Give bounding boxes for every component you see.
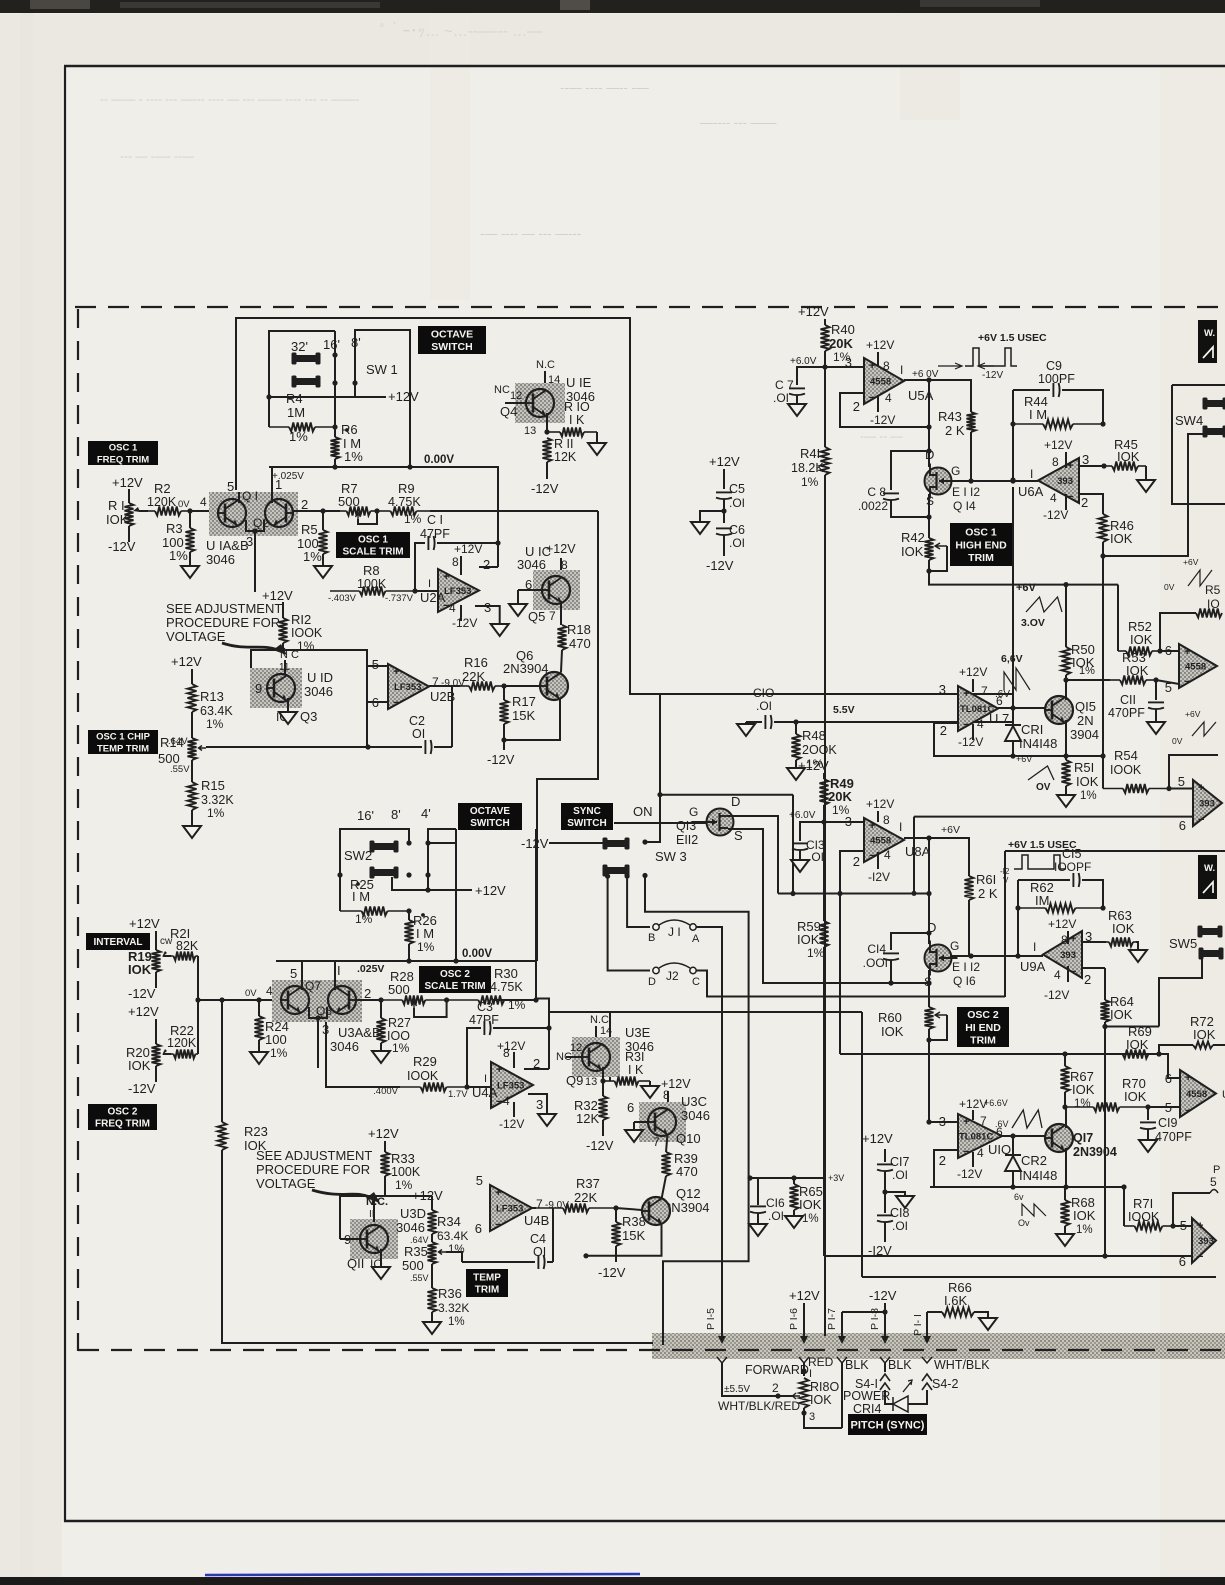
svg-text:500: 500 [388, 982, 410, 997]
svg-text:8: 8 [883, 359, 890, 373]
svg-text:+12V: +12V [129, 916, 160, 931]
wire emitters common [246, 520, 264, 531]
svg-text:R42: R42 [901, 530, 925, 545]
wire U4B output [532, 1207, 536, 1209]
svg-text:+12V: +12V [959, 665, 987, 679]
svg-text:4: 4 [503, 1094, 510, 1108]
svg-text:2: 2 [1084, 972, 1091, 987]
svg-text:OSC 1 CHIP: OSC 1 CHIP [96, 732, 151, 743]
svg-text:Ov: Ov [1018, 1218, 1030, 1228]
svg-text:BLK: BLK [888, 1358, 912, 1372]
svg-text:P I-5: P I-5 [705, 1308, 717, 1330]
svg-text:FREQ TRIM: FREQ TRIM [95, 1119, 150, 1130]
resistor R33 [384, 1141, 386, 1152]
svg-text:U 7: U 7 [989, 711, 1009, 726]
halftone connector band [652, 1333, 1225, 1359]
wire Q1 collector [238, 492, 240, 503]
svg-text:.OI: .OI [729, 496, 745, 510]
svg-text:500: 500 [338, 494, 360, 509]
wire Q16 gate row [950, 955, 1043, 957]
svg-text:1M: 1M [287, 405, 305, 420]
node R4-R6 junction [332, 424, 337, 429]
svg-text:8': 8' [351, 335, 361, 350]
svg-text:R37: R37 [576, 1176, 600, 1191]
svg-text:3.OV: 3.OV [1021, 617, 1045, 629]
svg-text:TRIM: TRIM [475, 1285, 499, 1296]
svg-text:QI3: QI3 [676, 819, 696, 833]
svg-text:R38: R38 [622, 1214, 646, 1229]
svg-text:IM: IM [1035, 893, 1049, 908]
svg-text:IOK: IOK [1076, 774, 1099, 789]
resistor R36 [431, 1264, 433, 1288]
svg-text:3: 3 [1082, 452, 1089, 467]
wire osc2 bottom rail [930, 1186, 1124, 1188]
resistor R34 [431, 1196, 433, 1210]
svg-text:1%: 1% [344, 449, 363, 464]
node SW1 16ft [332, 352, 337, 357]
svg-text:1%: 1% [801, 475, 819, 489]
svg-text:7: 7 [653, 1135, 660, 1149]
ground C5C6 [691, 522, 709, 534]
wire P1-5 to R180 wiper [722, 1363, 793, 1396]
svg-text:2: 2 [853, 854, 860, 869]
wire OSC1 block top rail [236, 318, 1013, 694]
svg-text:TRIM: TRIM [968, 552, 994, 564]
svg-text:-12V: -12V [982, 370, 1003, 381]
svg-text:+12V: +12V [412, 1188, 443, 1203]
svg-text:Q5: Q5 [528, 609, 545, 624]
svg-text:3: 3 [536, 1097, 543, 1112]
octave switch label box 2 [458, 803, 522, 830]
svg-text:N C: N C [280, 649, 299, 661]
svg-text:OSC 1: OSC 1 [109, 443, 138, 454]
svg-text:I: I [900, 363, 903, 377]
svg-text:+: + [869, 360, 875, 372]
svg-text:R3I: R3I [625, 1050, 644, 1064]
svg-text:SCALE TRIM: SCALE TRIM [342, 547, 403, 558]
svg-text:1%: 1% [303, 549, 322, 564]
svg-text:.OI: .OI [892, 1219, 908, 1233]
svg-text:U ID: U ID [307, 670, 333, 685]
wire C9 net vertical [1012, 390, 1014, 480]
svg-text:+6V: +6V [1016, 754, 1032, 764]
svg-text:NC: NC [494, 384, 510, 396]
svg-text:0V: 0V [1164, 582, 1175, 592]
svg-text:VOLTAGE: VOLTAGE [166, 629, 226, 644]
wire R64 junction down to 393b pin6 rail [1104, 1027, 1106, 1257]
svg-text:IOK: IOK [1073, 1208, 1096, 1223]
capacitor C3 junction [546, 1025, 551, 1030]
svg-text:CR2: CR2 [1021, 1153, 1047, 1168]
svg-text:J2: J2 [666, 969, 679, 983]
svg-text:--- — -—- --—: --- — -—- --— [120, 149, 194, 163]
svg-text:1%: 1% [206, 717, 224, 731]
ground R31 [641, 1086, 659, 1098]
page top edge strip [0, 0, 1225, 13]
svg-text:J I: J I [668, 925, 681, 939]
osc1 freq trim label box [88, 441, 158, 465]
wire out node down [928, 838, 930, 944]
svg-text:1%: 1% [207, 806, 225, 820]
svg-text:HIGH END: HIGH END [955, 539, 1007, 551]
svg-text:G: G [950, 939, 959, 953]
svg-text:2N3904: 2N3904 [503, 661, 549, 676]
ground C19 [1139, 1140, 1157, 1152]
svg-text:P I-8: P I-8 [869, 1308, 881, 1330]
svg-text:2: 2 [939, 1153, 946, 1168]
svg-text:+12V: +12V [368, 1126, 399, 1141]
op-amp 393b right [1192, 1218, 1216, 1263]
svg-text:5: 5 [1210, 1175, 1217, 1189]
svg-text:+6.0V: +6.0V [790, 356, 817, 367]
svg-text:C 8: C 8 [867, 485, 886, 499]
svg-text:CI6: CI6 [766, 1196, 785, 1210]
svg-text:+6V: +6V [1016, 582, 1037, 594]
svg-text:5: 5 [1178, 774, 1185, 789]
ground R36 [423, 1322, 441, 1334]
svg-text:OSC 2: OSC 2 [440, 969, 470, 980]
svg-text:SYNC: SYNC [573, 806, 601, 817]
svg-text:TEMP: TEMP [473, 1273, 501, 1284]
wire R30 output to pin2 net [535, 999, 549, 1070]
wire R50 junction row [1066, 679, 1110, 681]
svg-text:WHT/BLK: WHT/BLK [934, 1358, 990, 1372]
transistor Q15 2N3904 [1045, 696, 1073, 724]
svg-text:.OI: .OI [768, 1209, 784, 1223]
svg-text:2: 2 [1081, 495, 1088, 510]
svg-text:I K: I K [628, 1063, 644, 1077]
svg-text:CRI4: CRI4 [853, 1402, 882, 1416]
svg-text:7: 7 [981, 684, 988, 698]
svg-text:R6I: R6I [976, 872, 996, 887]
svg-text:R14: R14 [160, 735, 184, 750]
switch S4-2 [922, 1374, 932, 1390]
svg-text:3046: 3046 [330, 1039, 359, 1054]
wire Q13 drain net vertical [792, 795, 794, 894]
svg-text:LF353: LF353 [444, 586, 471, 597]
svg-text:+3V: +3V [828, 1173, 844, 1183]
svg-text:U3E: U3E [625, 1025, 651, 1040]
svg-text:+12V: +12V [866, 797, 894, 811]
svg-text:BLK: BLK [845, 1358, 869, 1372]
svg-text:+: + [1184, 646, 1190, 658]
svg-text:I M: I M [416, 926, 434, 941]
node interval rail [195, 997, 200, 1002]
svg-text:CIO: CIO [753, 686, 774, 700]
svg-text:EII2: EII2 [676, 833, 698, 847]
dual transistor U3A&B 3046 [272, 980, 362, 1022]
switch S4-1 [884, 1363, 886, 1372]
wire U2B output [429, 686, 452, 742]
svg-text:+: + [1197, 1220, 1203, 1232]
svg-text:IOK: IOK [901, 544, 924, 559]
svg-text:IO: IO [1207, 597, 1220, 611]
svg-text:U IA&B: U IA&B [206, 538, 249, 553]
svg-text:.OI: .OI [773, 391, 789, 405]
svg-text:OSC 1: OSC 1 [358, 535, 388, 546]
svg-text:R43: R43 [938, 409, 962, 424]
osc1 scale trim label box [336, 532, 410, 558]
svg-text:−: − [1067, 491, 1073, 503]
svg-text:2 K: 2 K [978, 886, 998, 901]
svg-text:WHT/BLK/RED: WHT/BLK/RED [718, 1399, 800, 1413]
op-amp U2B LF353 [367, 665, 388, 667]
svg-text:8: 8 [452, 555, 459, 569]
svg-text:Q12: Q12 [676, 1186, 701, 1201]
wire R52 node up to R5x [1160, 613, 1196, 651]
svg-text:I: I [1033, 940, 1036, 954]
svg-text:I: I [1030, 467, 1033, 481]
svg-text:1.7V: 1.7V [448, 1089, 468, 1100]
wire U7 pin3 [934, 693, 958, 695]
svg-text:C: C [692, 976, 700, 988]
svg-text:-12V: -12V [128, 986, 156, 1001]
wire Q16 source [928, 970, 930, 999]
svg-text:12K: 12K [554, 450, 577, 464]
svg-text:INTERVAL: INTERVAL [93, 937, 142, 948]
wire emitters U3AB [309, 1007, 327, 1018]
svg-text:−: − [495, 1219, 501, 1231]
svg-text:U4B: U4B [524, 1213, 549, 1228]
wire 393 inputs [1169, 788, 1193, 790]
svg-text:4: 4 [977, 1146, 984, 1160]
svg-text:C 7: C 7 [775, 378, 794, 392]
svg-text:SWITCH: SWITCH [431, 341, 472, 353]
svg-text:Q9: Q9 [566, 1073, 583, 1088]
svg-text:IOK: IOK [797, 932, 820, 947]
svg-text:IOK: IOK [1110, 531, 1133, 546]
dashed adjustment-area border [75, 306, 1225, 308]
ground R27 [372, 1051, 390, 1063]
wire Q15 emitter [1065, 720, 1067, 756]
svg-text:8: 8 [1052, 455, 1059, 469]
svg-text:63.4K: 63.4K [200, 704, 233, 718]
svg-text:.OI: .OI [729, 536, 745, 550]
svg-text:-.737V: -.737V [385, 593, 414, 604]
op-amp 4558b right [1180, 1070, 1216, 1117]
potentiometer R20 [155, 1019, 157, 1044]
switch SW4 bar upper [1204, 400, 1225, 407]
svg-text:R27: R27 [388, 1016, 411, 1030]
op-amp U6A 393 mirrored [1037, 483, 1039, 485]
svg-text:8: 8 [1061, 933, 1068, 947]
resistor R21 [162, 951, 167, 957]
svg-text:100K: 100K [391, 1165, 421, 1179]
svg-text:TL081C: TL081C [959, 1132, 993, 1143]
resistor R15 [191, 760, 193, 782]
svg-text:1%: 1% [417, 940, 435, 954]
svg-text:U8A: U8A [905, 844, 931, 859]
svg-text:IOOK: IOOK [291, 626, 323, 640]
switch SW1 bar upper [293, 355, 319, 362]
resistor R17 [503, 686, 505, 700]
ground U2A pin3 [491, 624, 509, 636]
svg-text:-12V: -12V [706, 558, 734, 573]
svg-text:4.75K: 4.75K [388, 495, 421, 509]
svg-text:3: 3 [845, 355, 852, 370]
switch SW1 bar lower [293, 378, 319, 385]
svg-text:IOK: IOK [1193, 1027, 1216, 1042]
svg-text:R8: R8 [363, 563, 380, 578]
svg-text:6v: 6v [1014, 1192, 1024, 1202]
svg-text:G: G [689, 805, 698, 819]
svg-text:-- —— - ---- --- —--- ---- — -: -- —— - ---- --- —--- ---- — --- —— ----… [100, 92, 359, 106]
wire U8A pin2 feedback [840, 851, 929, 894]
svg-text:C2: C2 [409, 714, 425, 728]
svg-text:-12V: -12V [128, 1081, 156, 1096]
svg-text:IOK: IOK [799, 1197, 822, 1212]
svg-text:QI7: QI7 [1073, 1131, 1093, 1145]
op-amp U2A LF353 [415, 590, 438, 592]
svg-text:3.32K: 3.32K [201, 793, 234, 807]
svg-text:U2A: U2A [420, 590, 446, 605]
svg-text:±5.5V: ±5.5V [724, 1384, 750, 1395]
op-amp U8A 4558 [824, 821, 864, 823]
svg-text:22K: 22K [574, 1190, 597, 1205]
svg-text:2: 2 [940, 723, 947, 738]
svg-text:R60: R60 [878, 1010, 902, 1025]
transistor U1D 3046 [250, 668, 302, 708]
svg-text:−: − [1184, 676, 1190, 688]
dashed border bottom [78, 1349, 1225, 1351]
svg-text:CI8: CI8 [890, 1206, 910, 1220]
svg-text:14: 14 [600, 1025, 612, 1037]
svg-text:+12V: +12V [388, 389, 419, 404]
svg-text:2 K: 2 K [945, 423, 965, 438]
svg-text:+: + [963, 1116, 969, 1128]
svg-text:1%: 1% [392, 1041, 410, 1055]
svg-text:IOK: IOK [1130, 632, 1153, 647]
svg-text:Q7: Q7 [305, 979, 321, 993]
svg-text:+12V: +12V [497, 1039, 525, 1053]
svg-text:32': 32' [291, 339, 308, 354]
wire SW2 +12V [392, 877, 472, 890]
svg-text:5: 5 [290, 966, 297, 981]
ground R68 [1056, 1234, 1074, 1246]
osc1 high end trim label box [950, 523, 1012, 566]
svg-text:+: + [869, 820, 875, 832]
resistor R27 [355, 999, 381, 1001]
svg-text:LF353: LF353 [394, 682, 421, 693]
svg-text:+12V: +12V [798, 758, 829, 773]
ground C10 [745, 722, 747, 724]
svg-text:6: 6 [1179, 818, 1186, 833]
svg-text:SCALE TRIM: SCALE TRIM [424, 981, 485, 992]
svg-text:OSC 2: OSC 2 [967, 1009, 999, 1021]
svg-text:3: 3 [809, 1411, 815, 1423]
svg-text:SWITCH: SWITCH [567, 818, 606, 829]
svg-text:R9: R9 [398, 481, 415, 496]
svg-text:+12V: +12V [1044, 438, 1072, 452]
wire long rail y694 [1012, 694, 1014, 722]
svg-text:+6.6V: +6.6V [984, 1098, 1008, 1108]
svg-text:S4-2: S4-2 [932, 1377, 958, 1391]
switch SW4 frame [1172, 384, 1225, 386]
svg-text:SW4: SW4 [1175, 413, 1203, 428]
wire to 393 pin6 [824, 1255, 1192, 1257]
osc2 freq trim label box [88, 1104, 157, 1130]
svg-text:U6A: U6A [1018, 484, 1044, 499]
svg-text:RED: RED [808, 1355, 834, 1369]
svg-text:470PF: 470PF [1108, 706, 1145, 720]
svg-text:U3A&B: U3A&B [338, 1025, 381, 1040]
svg-text:7: 7 [980, 1114, 987, 1128]
svg-text:TRIM: TRIM [970, 1034, 996, 1046]
svg-text:1%: 1% [1079, 665, 1095, 677]
wire osc2 comparator rail [840, 1053, 1168, 1055]
svg-text:2: 2 [364, 986, 371, 1001]
svg-text:+12V: +12V [1048, 917, 1076, 931]
pitch sync label box [848, 1414, 927, 1435]
switch SW4 bar lower [1204, 428, 1225, 435]
svg-text:.0022: .0022 [858, 499, 888, 513]
ground U1C pin6 [509, 604, 527, 616]
svg-text:R2: R2 [154, 481, 171, 496]
svg-text:4: 4 [884, 848, 891, 862]
svg-text:4: 4 [885, 391, 892, 405]
svg-text:R I: R I [108, 498, 125, 513]
svg-text:8: 8 [883, 813, 890, 827]
svg-text:IOK: IOK [128, 962, 152, 977]
svg-text:ON: ON [633, 804, 653, 819]
svg-text:C6: C6 [729, 523, 745, 537]
svg-text:4: 4 [977, 717, 984, 731]
svg-text:SEE ADJUSTMENT: SEE ADJUSTMENT [256, 1148, 372, 1163]
svg-text:OCTAVE: OCTAVE [431, 328, 473, 340]
svg-text:5: 5 [1165, 680, 1172, 695]
svg-text:E I I2: E I I2 [952, 960, 980, 974]
svg-text:−: − [1198, 814, 1204, 826]
op-amp U9A 393 mirrored [1043, 931, 1082, 978]
wire R64 junction to SW5 net [1105, 1026, 1159, 1028]
svg-text:20K: 20K [829, 336, 853, 351]
svg-text:.OI: .OI [892, 1168, 908, 1182]
svg-text:0V: 0V [178, 499, 190, 510]
svg-text:+12V: +12V [475, 883, 506, 898]
resistor R59 [823, 822, 825, 921]
svg-text:R IO: R IO [564, 400, 590, 414]
svg-text:+: + [1067, 460, 1073, 472]
wire C8 loop [891, 451, 929, 490]
svg-text:2N3904: 2N3904 [1073, 1145, 1117, 1159]
svg-text:OSC 2: OSC 2 [107, 1107, 137, 1118]
svg-text:15K: 15K [512, 708, 535, 723]
svg-text:-12V: -12V [521, 836, 549, 851]
transistor pair U1A&B 3046 [209, 492, 298, 536]
svg-text:SEE ADJUSTMENT: SEE ADJUSTMENT [166, 601, 282, 616]
svg-text:-12V: -12V [452, 616, 477, 630]
osc2 scale trim label box [419, 966, 491, 993]
svg-text:-12V: -12V [1043, 508, 1068, 522]
svg-text:POWER: POWER [843, 1389, 890, 1403]
wire Q6 emitter [506, 698, 560, 740]
svg-text:470: 470 [569, 636, 591, 651]
node base Q1 [187, 508, 192, 513]
osc2 hi end trim label box [957, 1007, 1009, 1047]
interval label box [86, 933, 150, 950]
svg-text:-— -- —: -— -- — [860, 429, 903, 443]
svg-text:1%: 1% [169, 548, 188, 563]
ground R45 [1137, 480, 1155, 492]
svg-text:PROCEDURE FOR: PROCEDURE FOR [256, 1162, 370, 1177]
svg-text:SW 3: SW 3 [655, 849, 687, 864]
svg-text:+12V: +12V [866, 338, 894, 352]
svg-text:+: + [963, 688, 969, 700]
svg-text:4: 4 [1050, 491, 1057, 505]
sync switch label box [561, 803, 613, 830]
svg-text:R17: R17 [512, 694, 536, 709]
svg-text:-12V: -12V [869, 1288, 897, 1303]
